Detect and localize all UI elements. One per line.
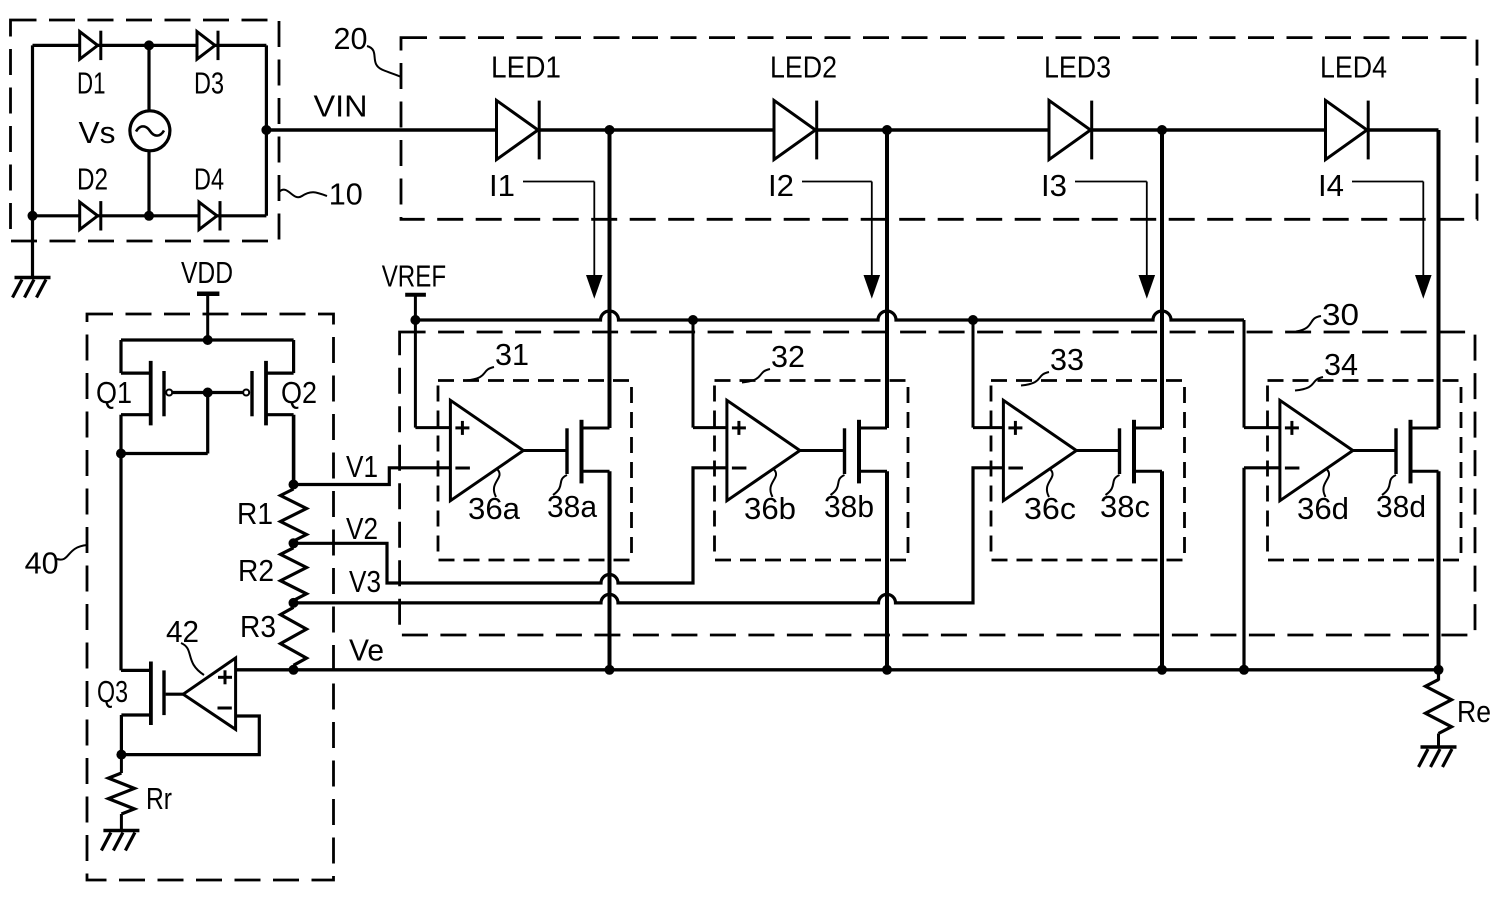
dashed box 30 (driver block): [400, 332, 1475, 635]
op-amp 42 (error amplifier): [183, 658, 235, 729]
LED diode LED4: [1320, 51, 1387, 160]
svg-text:36c: 36c: [1024, 492, 1076, 526]
dashed box 34 (driver unit): [1268, 381, 1462, 561]
transistor 38a: [523, 420, 609, 524]
resistor R3: [240, 607, 307, 665]
svg-text:40: 40: [25, 547, 59, 581]
node mirror gate: [203, 388, 213, 398]
wire Re top lead: [1437, 670, 1440, 681]
diode D2: [77, 163, 108, 231]
svg-text:Rr: Rr: [146, 782, 172, 816]
svg-text:VDD: VDD: [181, 256, 233, 290]
wire V1 to 36a - input (node V1): [294, 450, 451, 485]
wire bridge left branch: [31, 45, 34, 215]
wire Vs center branch: [147, 45, 150, 215]
wire bridge right branch: [265, 45, 268, 215]
label 34 leader: [1295, 348, 1358, 391]
svg-text:Q2: Q2: [281, 376, 317, 410]
svg-text:30: 30: [1322, 298, 1359, 332]
ground (Re): [1419, 747, 1457, 767]
transistor 38b: [800, 420, 887, 524]
dashed box 20 (LED block): [401, 38, 1477, 220]
label 32 leader: [742, 340, 805, 383]
svg-text:34: 34: [1324, 348, 1358, 382]
wire transistor 38a source to Ve rail: [608, 471, 612, 670]
op-amp 36a: [450, 400, 523, 526]
LED diode LED2: [770, 51, 837, 160]
wire VREF to 36a + input: [415, 320, 450, 428]
wire LED1 node to transistor 38a drain: [608, 130, 612, 428]
svg-text:32: 32: [771, 340, 805, 374]
dashed box 10 (rectifier block): [11, 20, 280, 241]
svg-text:33: 33: [1050, 343, 1084, 377]
transistor 38c: [1076, 420, 1162, 524]
node VREF tap 36a: [410, 315, 420, 325]
wire V3 to 36c - input (node V3): [294, 468, 1004, 603]
wire Q1 source branch: [121, 340, 151, 373]
svg-text:I2: I2: [768, 169, 794, 203]
svg-text:LED4: LED4: [1320, 51, 1387, 85]
wire Q3 source branch: [121, 715, 150, 755]
transistor Q3: [97, 662, 183, 726]
power symbol VREF: [382, 260, 446, 321]
current arrow I2: [768, 169, 880, 299]
label 30 leader: [1296, 298, 1359, 332]
resistor Rr: [108, 773, 172, 816]
svg-text:R2: R2: [238, 554, 274, 588]
transistor Q2: [243, 361, 317, 426]
dashed box 32 (driver unit): [715, 381, 909, 561]
node bridge bottom center: [144, 211, 154, 221]
op-amp 36d: [1280, 400, 1353, 526]
wire bridge to ground: [31, 216, 34, 278]
wire Re bottom lead: [1437, 734, 1440, 748]
svg-text:20: 20: [334, 22, 368, 56]
node Ve at 38a source: [605, 665, 615, 675]
label 42 leader: [166, 615, 204, 675]
label 20 leader: [334, 22, 402, 77]
svg-text:Q3: Q3: [97, 675, 128, 709]
current arrow I3: [1041, 169, 1155, 299]
wire Ve rail (net Ve): [236, 634, 1439, 670]
dashed box 31 (driver unit): [438, 381, 632, 561]
LED diode LED1: [491, 51, 561, 160]
transistor Q1: [96, 361, 172, 426]
svg-text:I1: I1: [489, 169, 515, 203]
svg-text:38b: 38b: [824, 490, 874, 524]
svg-text:Q1: Q1: [96, 376, 132, 410]
svg-text:D4: D4: [194, 163, 224, 197]
dashed box 40 (reference generator block): [87, 314, 334, 880]
label 33 leader: [1021, 343, 1084, 386]
wire LED2 node to transistor 38b drain: [885, 130, 889, 428]
resistor Re: [1426, 680, 1492, 734]
transistor 38d: [1353, 420, 1439, 524]
wire V2 to 36b - input (node V2): [294, 468, 727, 583]
current arrow I1: [489, 169, 603, 299]
wire transistor 38b source to Ve rail: [885, 471, 889, 670]
node VREF tap 36c: [968, 315, 978, 325]
svg-text:10: 10: [329, 178, 363, 212]
node VDD rail: [203, 335, 213, 345]
diode D4: [194, 163, 224, 231]
svg-text:LED2: LED2: [770, 51, 837, 85]
current arrow I4: [1318, 169, 1432, 299]
svg-text:42: 42: [166, 615, 199, 649]
label 31 leader: [466, 338, 529, 381]
wire VREF to 36b + input: [693, 320, 727, 428]
svg-text:31: 31: [495, 338, 529, 372]
label 40 leader: [25, 545, 87, 581]
svg-text:V2: V2: [346, 512, 378, 546]
wire Q2 drain branch: [266, 415, 294, 485]
node Ve at 38c source: [1157, 665, 1167, 675]
node Ve at 36d input: [1239, 665, 1249, 675]
svg-text:V3: V3: [349, 565, 381, 599]
op-amp 36b: [727, 400, 800, 526]
node V2 (R1-R2): [289, 538, 299, 548]
svg-text:VREF: VREF: [382, 260, 446, 294]
resistor R2: [238, 548, 307, 601]
svg-text:LED3: LED3: [1044, 51, 1111, 85]
node V1 (R1 top): [289, 480, 299, 490]
node VREF tap 36b: [688, 315, 698, 325]
op-amp 36c: [1003, 400, 1076, 526]
svg-text:38d: 38d: [1376, 490, 1426, 524]
wire Rr top lead: [120, 755, 123, 773]
wire VREF to 36c + input: [973, 320, 1003, 428]
svg-text:36b: 36b: [744, 492, 796, 526]
node V3 (R2-R3): [289, 598, 299, 608]
svg-text:38a: 38a: [547, 490, 597, 524]
AC source Vs: [79, 111, 170, 151]
diode D3: [194, 31, 224, 101]
node VIN output: [261, 125, 271, 135]
ground (Rr): [101, 831, 139, 851]
wire mirror to Q3 drain: [121, 454, 151, 671]
node Q3 source / Rr top: [116, 750, 126, 760]
svg-text:VIN: VIN: [314, 90, 368, 124]
wire VIN rail: [266, 128, 1438, 131]
wire LED3 node to transistor 38c drain: [1160, 130, 1164, 428]
node Ve at Re top: [1434, 665, 1444, 675]
label 10 leader: [280, 178, 363, 212]
svg-text:D3: D3: [194, 67, 224, 101]
node LED3 cathode: [1157, 125, 1167, 135]
svg-text:R3: R3: [240, 610, 276, 644]
wire transistor 38c source to Ve rail: [1160, 471, 1164, 670]
wire Q1 drain branch: [121, 415, 151, 454]
svg-text:38c: 38c: [1100, 490, 1150, 524]
wire gate line Q1-Q2: [172, 391, 243, 394]
net label VIN: [314, 90, 368, 124]
svg-text:V1: V1: [346, 450, 378, 484]
svg-text:D2: D2: [77, 163, 108, 197]
wire diode-connect Q1: [121, 393, 208, 454]
svg-text:36a: 36a: [468, 492, 520, 526]
svg-text:Re: Re: [1457, 695, 1491, 729]
wire Rr bottom lead: [120, 814, 123, 831]
svg-text:I4: I4: [1318, 169, 1344, 203]
svg-text:I3: I3: [1041, 169, 1067, 203]
dashed box 33 (driver unit): [991, 381, 1185, 561]
wire bridge bottom rail: [33, 214, 267, 217]
svg-text:36d: 36d: [1297, 492, 1349, 526]
node Ve at 38b source: [882, 665, 892, 675]
wire VREF to 36d + input: [1244, 320, 1280, 428]
resistor R1: [237, 489, 307, 541]
ground (bridge): [13, 278, 51, 298]
node Q1 drain: [116, 449, 126, 459]
svg-text:Vs: Vs: [79, 116, 116, 150]
node LED2 cathode: [882, 125, 892, 135]
power symbol VDD: [181, 256, 233, 340]
wire VREF bus: [415, 311, 1244, 320]
wire LED4 cathode to transistor 38d drain: [1437, 130, 1441, 428]
wire bridge top rail: [33, 44, 267, 47]
wire VDD rail of mirror: [121, 338, 294, 341]
node LED1 cathode: [605, 125, 615, 135]
node Ve at R3 bottom: [289, 665, 299, 675]
svg-text:D1: D1: [77, 67, 106, 101]
wire transistor 38d source to Ve rail: [1437, 471, 1441, 670]
svg-text:R1: R1: [237, 497, 273, 531]
diode D1: [77, 31, 106, 101]
LED diode LED3: [1044, 51, 1111, 160]
wire Ve to 36d - input: [1244, 468, 1280, 670]
wire 42 - input feedback: [121, 716, 259, 755]
svg-text:LED1: LED1: [491, 51, 561, 85]
svg-text:Ve: Ve: [349, 634, 384, 668]
node bridge bottom left: [28, 211, 38, 221]
node bridge top center: [144, 40, 154, 50]
wire Q2 source branch: [266, 340, 294, 373]
